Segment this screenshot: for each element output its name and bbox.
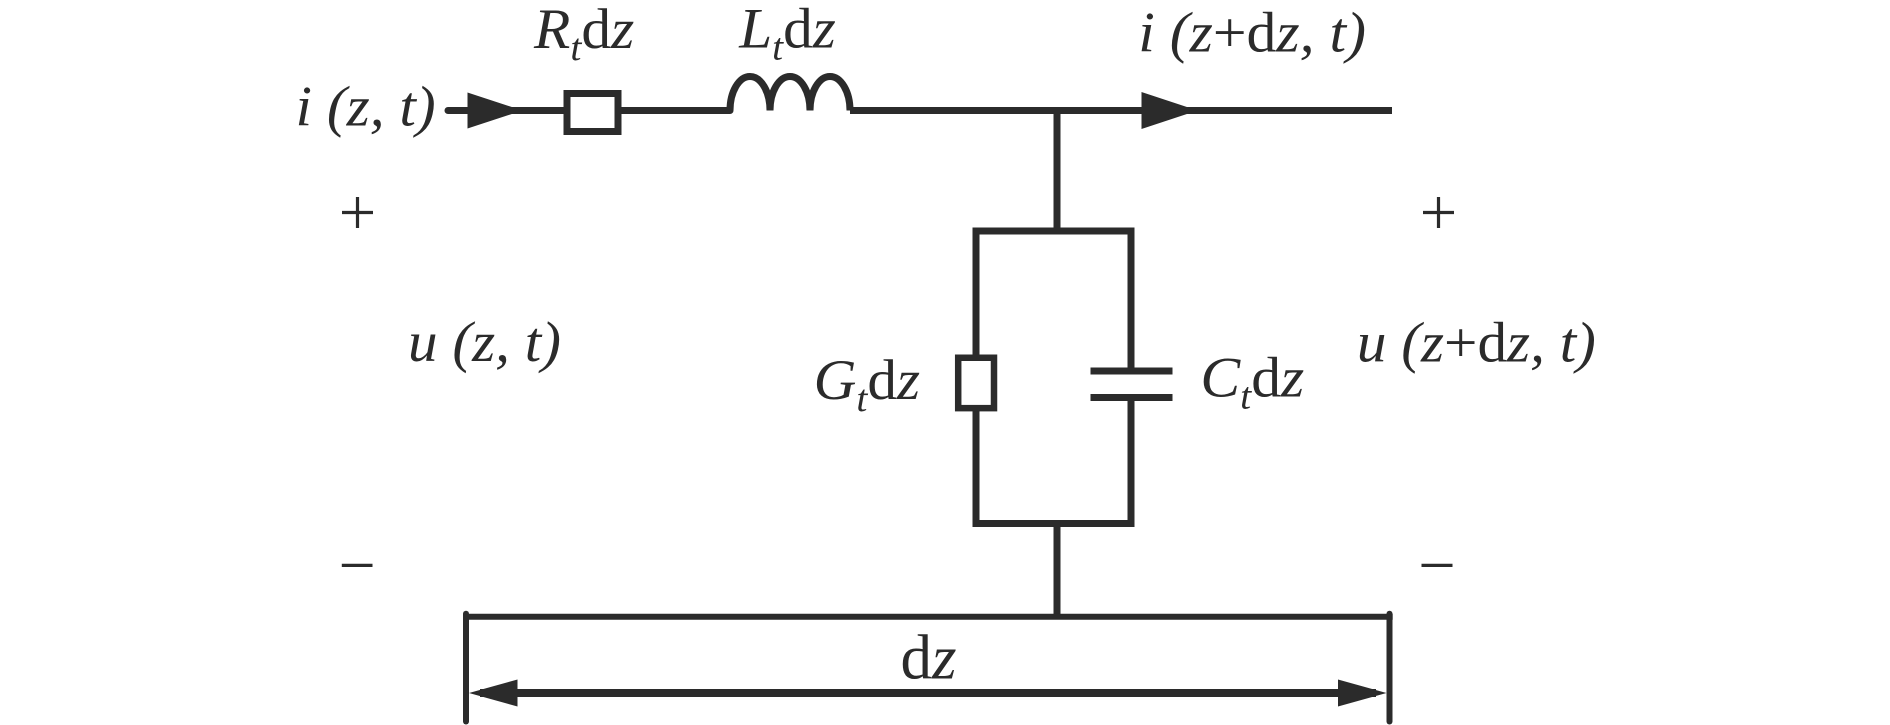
svg-text:u (z, t): u (z, t): [408, 310, 561, 374]
arrowhead: dimension left: [469, 680, 518, 707]
wire: top rail right segment: [850, 107, 1392, 114]
label minus left: [342, 564, 373, 567]
inductor L1: [730, 77, 850, 111]
wire: top rail left segment: [448, 107, 730, 114]
arrow: current direction i(z+dz,t): [1142, 92, 1198, 129]
label minus right: [1422, 564, 1453, 567]
label Rt dz: [533, 0, 634, 69]
dimension bracket: [463, 614, 1393, 722]
arrowhead: dimension right: [1338, 680, 1387, 707]
svg-text:i (z, t): i (z, t): [296, 75, 436, 139]
label u (z, t): [408, 310, 561, 374]
label u (z+dz, t): [1357, 310, 1596, 374]
svg-text:Rtdz: Rtdz: [533, 0, 634, 69]
label Lt dz: [738, 0, 836, 68]
label Gt dz: [814, 348, 920, 420]
wire: node stem down from top rail: [1054, 107, 1061, 231]
arrow: current direction i(z,t): [468, 93, 523, 129]
label Ct dz: [1200, 346, 1304, 418]
wire: bottom stem: [1054, 524, 1061, 618]
label plus left: [342, 197, 373, 228]
svg-text:Ltdz: Ltdz: [738, 0, 836, 68]
svg-text:i (z+dz, t): i (z+dz, t): [1138, 1, 1366, 64]
wire: shunt loop top bar: [973, 228, 1135, 235]
label i (z+dz, t): [1138, 1, 1366, 64]
resistor G (shunt conductance): [958, 358, 994, 408]
svg-text:u (z+dz, t): u (z+dz, t): [1357, 310, 1596, 374]
resistor R (series): [567, 94, 618, 132]
svg-text:Gtdz: Gtdz: [814, 348, 920, 420]
wire: shunt loop bottom bar: [973, 520, 1135, 527]
svg-text:Ctdz: Ctdz: [1200, 346, 1304, 418]
wire: shunt loop right branch upper: [1128, 228, 1135, 372]
wire: shunt loop left branch: [973, 228, 980, 528]
label plus right: [1423, 197, 1454, 228]
capacitor C plates: [1091, 371, 1173, 398]
label i (z, t): [296, 75, 436, 139]
wire: shunt loop right branch lower: [1128, 398, 1135, 528]
svg-text:dz: dz: [901, 622, 957, 692]
